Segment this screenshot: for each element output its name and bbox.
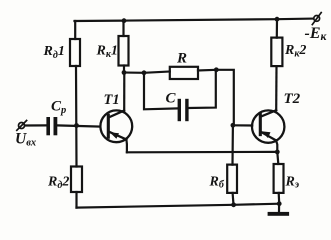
junction input node — [74, 123, 79, 128]
terminal input Uvx — [17, 121, 27, 131]
svg-text:-Eк: -Eк — [305, 25, 328, 43]
svg-text:C: C — [166, 91, 177, 107]
label Rd1 — [43, 44, 65, 61]
wire C branch left — [144, 73, 178, 110]
wire T1 collector — [123, 73, 125, 111]
junction node B — [214, 67, 219, 72]
wire T1 emitter — [125, 140, 128, 153]
label Uvx — [15, 131, 36, 149]
wire Rb bottom — [232, 193, 235, 205]
resistor Re — [274, 164, 284, 193]
wire Rk1 bottom — [123, 66, 125, 73]
wire Re bottom — [278, 193, 281, 204]
wire left rail middle — [75, 66, 78, 167]
resistor R — [170, 67, 198, 79]
wire T2 base — [233, 124, 252, 126]
label Rk1 — [96, 43, 118, 60]
wire left rail bottom — [75, 192, 77, 208]
label C — [166, 91, 177, 107]
wire bottom rail — [77, 204, 280, 208]
wire T2 collector — [275, 66, 277, 110]
wire R right — [198, 70, 234, 126]
wire Re top — [277, 152, 278, 164]
label T1 — [104, 92, 120, 108]
svg-text:Rд2: Rд2 — [47, 174, 69, 191]
resistor Rk1 — [119, 36, 129, 66]
wire Rb top — [231, 125, 234, 164]
wire left rail top — [74, 21, 76, 39]
wire input to Cp — [25, 124, 46, 126]
wire Rk2 top — [276, 19, 278, 37]
junction Rb bottom — [231, 202, 236, 207]
ground — [268, 204, 290, 216]
resistor Rd1 — [70, 39, 80, 66]
wire C branch right — [189, 70, 216, 108]
label Re — [285, 175, 300, 191]
svg-text:Cр: Cр — [51, 99, 66, 116]
resistor Rk2 — [271, 38, 282, 67]
resistor Rd2 — [71, 167, 82, 193]
label Rk2 — [284, 43, 306, 60]
svg-text:T1: T1 — [104, 92, 120, 108]
svg-text:Rк1: Rк1 — [96, 43, 118, 60]
transistor T2 — [252, 110, 284, 143]
wire Cp to T1 base — [57, 125, 100, 126]
label R — [176, 51, 187, 67]
svg-text:Rд1: Rд1 — [43, 44, 65, 61]
svg-text:Rэ: Rэ — [285, 175, 300, 191]
capacitor Cp — [46, 117, 57, 135]
svg-text:R: R — [176, 51, 187, 67]
svg-text:Rк2: Rк2 — [284, 43, 306, 60]
svg-text:Uвх: Uвх — [15, 131, 36, 149]
capacitor C — [178, 99, 189, 121]
terminal -Ek — [312, 13, 321, 25]
wire Rk1 top — [122, 21, 124, 36]
transistor T1 — [100, 110, 132, 142]
svg-text:Rб: Rб — [209, 175, 225, 191]
junction T2 base node — [231, 123, 236, 128]
svg-text:T2: T2 — [284, 91, 301, 107]
junction Rk2 top — [275, 17, 280, 22]
resistor Rb — [227, 165, 237, 193]
junction node A1 — [122, 70, 127, 75]
label Cp — [51, 99, 66, 116]
junction Rk1 top — [122, 18, 127, 23]
label Rb — [209, 175, 225, 191]
wire node A horizontal — [124, 72, 170, 73]
junction node A2 — [142, 70, 147, 75]
label Rd2 — [47, 174, 69, 191]
wire top supply rail — [75, 19, 314, 21]
label -Ek — [305, 25, 328, 43]
wire T2 emitter — [276, 140, 277, 152]
wire emitter link — [127, 151, 277, 154]
label T2 — [284, 91, 301, 107]
junction emitter node — [275, 150, 280, 155]
junction ground node — [277, 201, 282, 206]
